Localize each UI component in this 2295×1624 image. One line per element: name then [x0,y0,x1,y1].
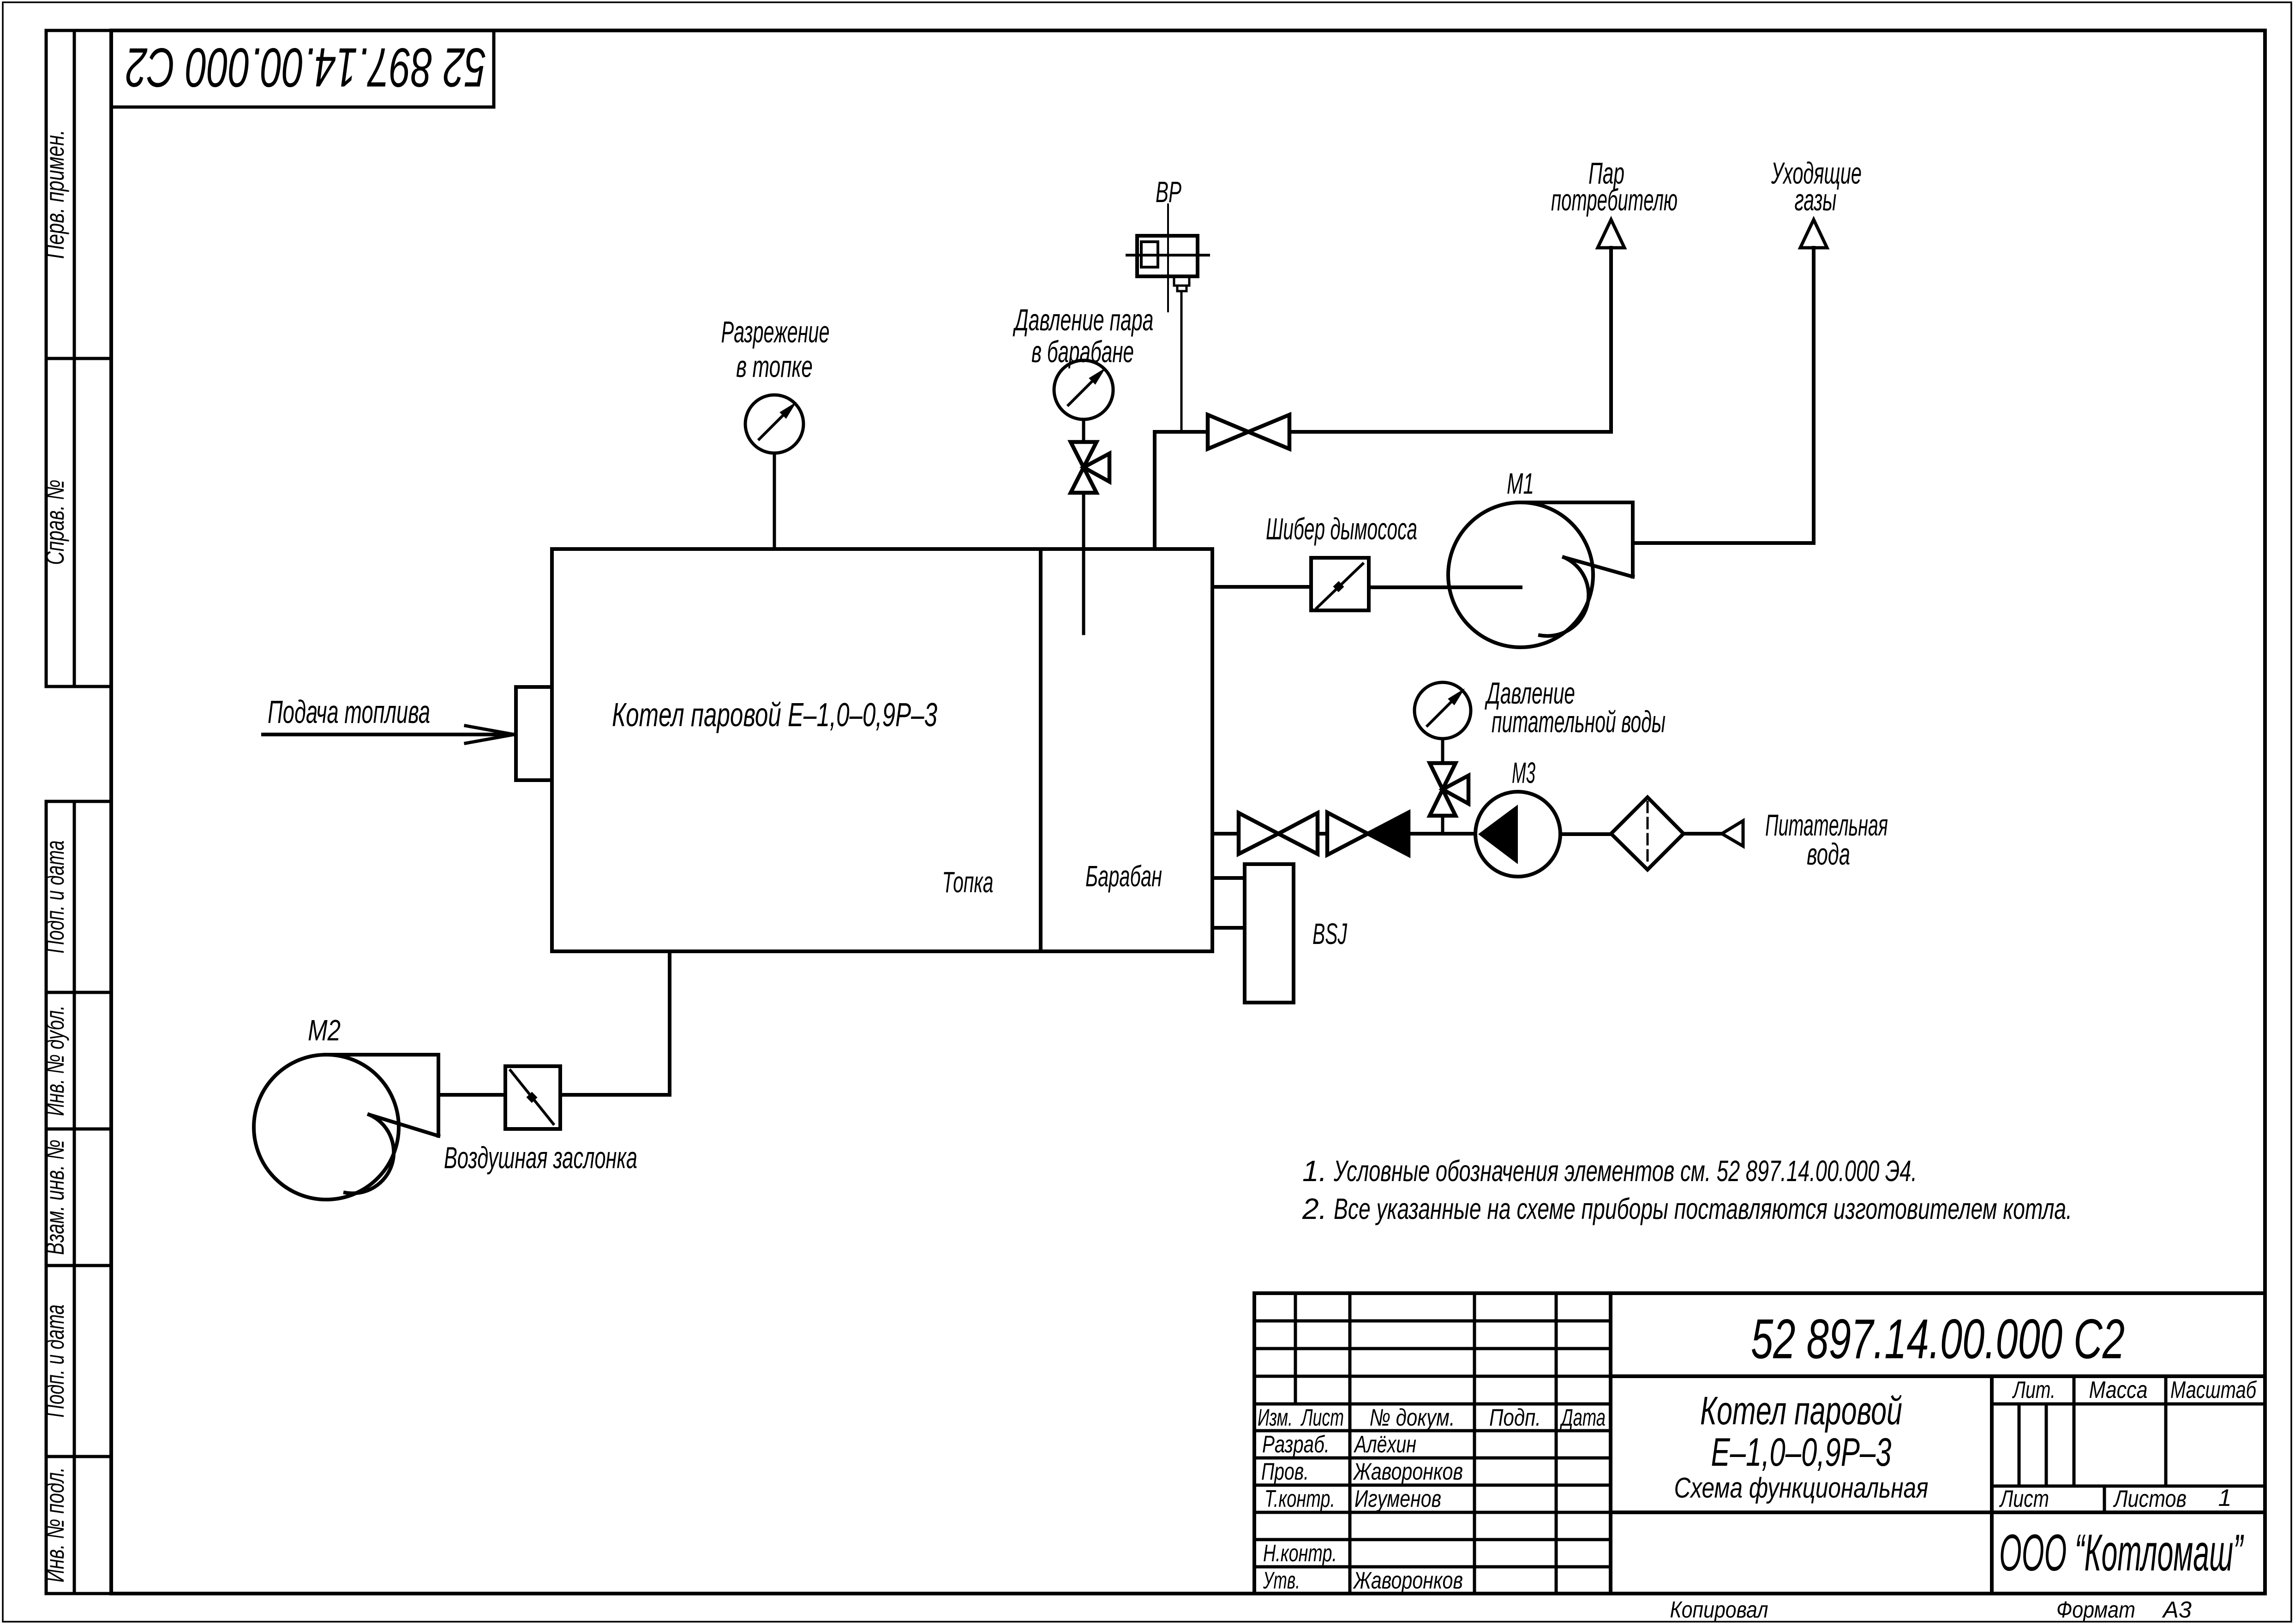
tee stub up [1441,816,1444,834]
svg-text:Воздушная заслонка: Воздушная заслонка [444,1140,637,1175]
title block header row texts [1258,1404,1606,1431]
fan M1 (smoke exhauster) [1448,502,1633,647]
svg-text:Взам. инв. №: Взам. инв. № [40,1140,69,1255]
boiler body [552,549,1212,951]
title block outer [1254,1293,2265,1594]
svg-text:Формат: Формат [2056,1597,2135,1623]
fuel arrowhead [466,726,514,734]
svg-text:Условные обозначения элемент: Условные обозначения элементов см. 52 89… [1333,1154,1917,1188]
left margin lower boxes [40,801,111,1594]
svg-text:газы: газы [1795,183,1837,217]
svg-text:Листов: Листов [2113,1486,2187,1512]
svg-text:Алёхин: Алёхин [1354,1431,1416,1458]
svg-text:Игуменов: Игуменов [1354,1486,1441,1512]
fan M1 outlet pipe [1634,248,1814,543]
steam pressure gauge [1054,360,1113,419]
steam gauge stem into drum [1082,493,1085,633]
svg-text:Утв.: Утв. [1263,1567,1300,1594]
steam arrow [1598,220,1624,248]
svg-text:Котел паровой: Котел паровой [1700,1389,1902,1433]
BP pressure switch [1127,204,1209,311]
pipe damper to fan M2 [438,1093,505,1097]
svg-text:Схема функциональная: Схема функциональная [1674,1472,1929,1504]
BSJ level device [1245,864,1294,1003]
svg-text:2.: 2. [1302,1192,1327,1225]
lit massa masshtab block [1611,1376,2265,1594]
svg-text:Инв. № подл.: Инв. № подл. [40,1467,69,1582]
svg-text:Лист: Лист [1999,1486,2049,1512]
fuel inlet box [516,687,552,780]
air damper box [505,1066,560,1129]
svg-text:Подп. и дата: Подп. и дата [40,841,69,954]
left margin box Справ.№ [40,358,111,687]
svg-text:Жаворонков: Жаворонков [1353,1458,1463,1485]
feedwater pressure gauge [1414,682,1471,739]
pipe filter to inlet [1684,832,1722,836]
svg-text:Шибер дымососа: Шибер дымососа [1266,512,1417,546]
pipe valve2 to pump [1408,832,1475,836]
svg-text:52 897.14.00.000 С2: 52 897.14.00.000 С2 [1751,1308,2125,1370]
svg-text:Лит.: Лит. [2012,1377,2055,1403]
fan M2 (air blower) [254,1055,438,1200]
svg-text:Масса: Масса [2089,1377,2148,1403]
svg-text:Инв. № дубл.: Инв. № дубл. [40,1005,69,1116]
svg-text:М1: М1 [1507,467,1534,500]
svg-text:Жаворонков: Жаворонков [1353,1567,1463,1594]
svg-text:Н.контр.: Н.контр. [1263,1540,1337,1567]
flue gas arrow [1800,220,1827,248]
svg-text:№ докум.: № докум. [1370,1404,1455,1431]
damper to fan shaft line [1369,585,1521,589]
steam gauge three-way valve [1071,442,1109,493]
BSJ stubs [1212,876,1245,880]
svg-text:Пров.: Пров. [1261,1458,1309,1485]
svg-text:Т.контр.: Т.контр. [1264,1486,1335,1512]
svg-text:питательной воды: питательной воды [1492,705,1666,739]
svg-text:Подп. и дата: Подп. и дата [40,1305,69,1418]
top-left inverted designation box [111,30,494,107]
vacuum gauge stem [773,453,776,549]
svg-text:в барабане: в барабане [1031,334,1134,369]
svg-text:Разраб.: Разраб. [1262,1431,1330,1458]
svg-text:в топке: в топке [736,349,813,383]
feed check valve 2 [1327,812,1408,855]
svg-text:Котел паровой Е–1,0–0,9Р–3: Котел паровой Е–1,0–0,9Р–3 [612,697,937,734]
svg-text:Изм.: Изм. [1258,1404,1293,1431]
flue pipe boiler to damper [1212,585,1311,589]
svg-text:1: 1 [2218,1485,2232,1511]
svg-text:52 897.14.00.000 С2: 52 897.14.00.000 С2 [126,36,486,98]
left margin box Перв.примен. [40,30,111,358]
pipe pump to filter [1560,832,1611,836]
BP sensing line [1180,291,1183,432]
svg-text:ООО “Котломаш”: ООО “Котломаш” [1999,1524,2244,1582]
feed valve 1 [1239,813,1318,854]
svg-text:Е–1,0–0,9Р–3: Е–1,0–0,9Р–3 [1711,1430,1892,1475]
svg-text:BSJ: BSJ [1312,917,1348,950]
svg-text:Все указанные на схеме при: Все указанные на схеме приборы поставляю… [1334,1192,2072,1225]
fuel supply line [263,733,513,736]
svg-text:потребителю: потребителю [1551,183,1678,217]
svg-text:А3: А3 [2162,1597,2192,1623]
svg-text:Копировал: Копировал [1670,1597,1768,1623]
svg-text:Давление пара: Давление пара [1013,303,1154,337]
feedwater filter [1611,797,1684,870]
svg-text:Барабан: Барабан [1085,860,1162,893]
svg-text:М3: М3 [1512,756,1535,789]
boiler inner divider [1039,549,1043,951]
feedwater stub from drum [1212,832,1239,836]
air duct from boiler bottom [560,951,670,1095]
svg-text:Разрежение: Разрежение [721,315,830,349]
feed gauge stem [1441,739,1444,763]
svg-text:Справ. №: Справ. № [40,480,69,565]
flue damper (шибер) [1311,558,1369,610]
svg-text:Масштаб: Масштаб [2170,1377,2257,1403]
svg-text:вода: вода [1807,837,1850,871]
svg-text:Дата: Дата [1560,1404,1606,1431]
feedwater inlet arrow [1722,821,1743,846]
svg-text:Топка: Топка [942,866,994,899]
svg-text:Подача топлива: Подача топлива [268,694,430,730]
steam pipe from drum [1155,432,1208,549]
steam pipe to consumer [1289,248,1611,432]
title block signature rows [1261,1431,1463,1594]
pipe between valves [1318,832,1327,836]
feed gauge three-way valve [1430,763,1468,816]
svg-text:Подп.: Подп. [1489,1404,1541,1431]
designation cell [1611,1374,2265,1378]
svg-text:Лист: Лист [1300,1404,1344,1431]
pump M3 [1475,792,1560,877]
svg-text:1.: 1. [1302,1154,1327,1188]
svg-text:М2: М2 [308,1014,341,1047]
title block left table grid [1254,1293,1611,1594]
svg-text:Перв. примен.: Перв. примен. [40,130,69,259]
vacuum gauge [745,395,803,453]
main steam valve [1208,415,1289,449]
steam gauge stem upper [1082,419,1085,443]
